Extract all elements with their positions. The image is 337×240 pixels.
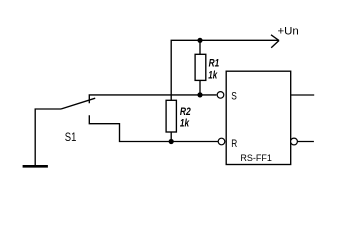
svg-text:R: R xyxy=(231,138,237,150)
svg-text:RS-FF1: RS-FF1 xyxy=(240,153,272,163)
svg-text:R1: R1 xyxy=(209,58,220,70)
svg-text:S: S xyxy=(231,91,237,103)
svg-text:1k: 1k xyxy=(180,117,190,129)
svg-text:S1: S1 xyxy=(65,130,77,144)
svg-text:1k: 1k xyxy=(208,69,218,81)
svg-text:R2: R2 xyxy=(180,106,191,118)
svg-text:+Un: +Un xyxy=(278,26,299,38)
